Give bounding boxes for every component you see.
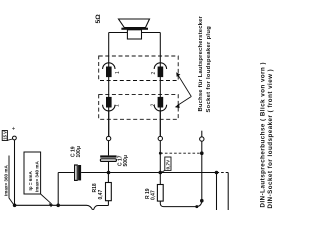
terminal circle aux (200, 137, 204, 141)
arrowhead to socket (175, 104, 180, 108)
svg-text:2: 2 (151, 104, 157, 107)
pointer lines to plug/socket (178, 75, 191, 97)
socket pin 1 (103, 97, 115, 111)
svg-text:Socket for loudspeaker plug: Socket for loudspeaker plug (206, 26, 212, 113)
wire socket pin1 down (108, 111, 110, 136)
wire R19 bottom curve (160, 201, 197, 207)
svg-text:+: + (12, 127, 16, 133)
svg-text:Imax= 340 mA: Imax= 340 mA (35, 161, 40, 192)
wire down right 1 (216, 173, 218, 211)
arrowhead to plug (176, 72, 180, 77)
junction dot (56, 204, 60, 208)
junction dot bus/C17/R18 (107, 171, 111, 175)
dashed box socket (99, 95, 179, 120)
wire to R19 (159, 173, 161, 185)
dashed box plug (99, 56, 179, 81)
wire right vertical (159, 33, 161, 137)
svg-text:Ip = 6mA: Ip = 6mA (28, 171, 33, 191)
resistor R19 (157, 185, 163, 202)
leader Ip box (41, 194, 52, 204)
box 15V (2, 131, 7, 141)
wire right terminal to bus (159, 141, 161, 173)
leader 0,7V box (161, 170, 165, 172)
bus wire left segment (58, 172, 74, 174)
loudspeaker LS cone (119, 19, 150, 28)
wire socket pin2 down (159, 111, 161, 136)
supply wire down (14, 140, 16, 205)
svg-text:0,7V: 0,7V (166, 159, 171, 169)
svg-text:500μ: 500μ (123, 155, 129, 166)
bottom supply wire (15, 204, 87, 206)
svg-text:5Ω: 5Ω (95, 14, 102, 24)
resistor R18 (106, 183, 112, 201)
capacitor C17 plate hollow (100, 159, 116, 162)
terminal circle right (158, 136, 162, 140)
measurement box 0,7V (165, 157, 171, 170)
wire curve up to aux line (197, 201, 202, 207)
capacitor C17 plate solid (100, 155, 116, 157)
junction dot aux/dashed (200, 151, 204, 155)
junction dot (13, 204, 17, 208)
loudspeaker mounting bar (121, 28, 148, 30)
svg-text:15 V: 15 V (3, 131, 8, 140)
svg-text:Buchse für Lautsprecherstecker: Buchse für Lautsprecherstecker (198, 15, 204, 111)
capacitor C19 plate hollow (75, 165, 78, 180)
svg-text:1: 1 (115, 104, 121, 107)
wire to R18 (107, 173, 109, 183)
wire rise from edge (93, 206, 108, 211)
plug pin 1 (103, 63, 115, 77)
junction dot (195, 205, 198, 208)
aux terminal wire down (201, 141, 203, 201)
leader 15V box (7, 139, 12, 140)
wire R18 bottom (107, 201, 109, 206)
arrowhead leader (49, 203, 54, 207)
svg-text:0,47: 0,47 (98, 190, 104, 200)
junction dot bus/R19 (159, 171, 163, 175)
svg-text:DIN-Lautsprecherbuchse ( Blick: DIN-Lautsprecherbuchse ( Blick von vorn … (260, 62, 267, 208)
svg-text:2: 2 (151, 72, 157, 75)
junction dot bus right (215, 171, 219, 175)
wire C17 to bus (108, 161, 110, 172)
wire left terminal to C17 (108, 141, 110, 156)
bus dashed right end (217, 172, 229, 174)
loudspeaker magnet (127, 30, 141, 39)
wire down right 2 (227, 173, 229, 211)
box Ip Imax (24, 152, 41, 194)
stub above aux terminal (201, 131, 203, 137)
underline bracket (9, 156, 14, 205)
svg-text:100μ: 100μ (76, 146, 82, 157)
svg-text:0,47: 0,47 (150, 190, 156, 200)
plug pin 2 (154, 63, 166, 77)
capacitor C19 plate solid (78, 165, 81, 180)
svg-text:DIN-Socket for loudspeaker ( f: DIN-Socket for loudspeaker ( front view … (267, 69, 274, 209)
wire speaker left to pin column (109, 32, 128, 34)
wire speaker right to pin column (142, 32, 161, 34)
junction dot dashed left (159, 152, 162, 155)
junction dot aux bottom (200, 199, 204, 203)
wire left vertical (108, 33, 110, 137)
terminal circle left (106, 136, 110, 140)
socket pin 2 (154, 97, 166, 111)
wire bus corner down left (57, 173, 59, 206)
wire dip to edge (87, 205, 93, 210)
svg-text:1: 1 (115, 71, 121, 74)
svg-text:Imax= 360 mA: Imax= 360 mA (3, 165, 8, 196)
dashed link wire (160, 152, 202, 154)
supply terminal circle (13, 136, 17, 140)
svg-text:R18: R18 (92, 183, 98, 192)
bus wire main segment (81, 172, 216, 174)
